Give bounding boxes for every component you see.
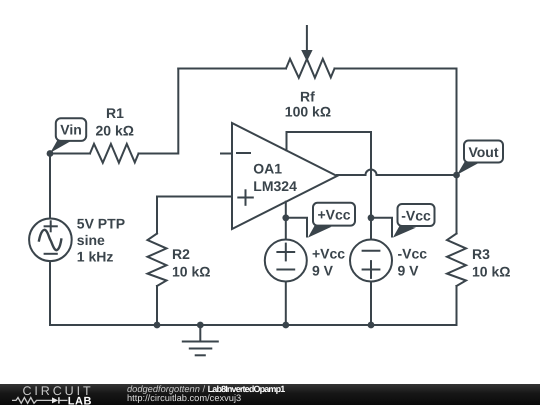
svg-text:LAB: LAB (68, 395, 92, 405)
footer bar (0, 384, 540, 405)
svg-text:LM324: LM324 (253, 178, 297, 194)
svg-text:9 V: 9 V (398, 262, 420, 278)
op-amp plus symbol (238, 197, 253, 199)
wire -Vcc source to bottom rail (370, 282, 372, 326)
svg-text:20 kΩ: 20 kΩ (96, 123, 134, 139)
wire Vin node down to source V1 (49, 154, 51, 219)
node dot Vout (453, 172, 460, 179)
svg-text:9 V: 9 V (312, 262, 334, 278)
node label Vin (50, 118, 86, 153)
node label Vout (457, 141, 503, 175)
wire top left to Rf (178, 68, 286, 70)
wire V1 to bottom rail (49, 261, 51, 325)
resistor R1 (90, 144, 139, 163)
svg-text:100 kΩ: 100 kΩ (285, 104, 331, 120)
voltage source -Vcc (350, 240, 392, 282)
wire Vout node down to R3 (456, 175, 458, 234)
ground (199, 325, 201, 341)
svg-text:R2: R2 (172, 246, 190, 262)
wire +Vcc tag stub (286, 218, 307, 237)
svg-text:http://circuitlab.com/cexvuj3: http://circuitlab.com/cexvuj3 (127, 393, 241, 403)
svg-text:5V PTP: 5V PTP (77, 216, 125, 232)
node dot +Vcc bottom (282, 322, 289, 329)
svg-text:1 kHz: 1 kHz (77, 248, 114, 264)
node dot ground (197, 322, 204, 329)
potentiometer Rf (286, 59, 335, 78)
logo resistor zigzag (12, 398, 52, 404)
wire op-amp V+ pin over to -Vcc branch (287, 132, 372, 240)
wire non-inverting input (157, 197, 232, 234)
svg-text:10 kΩ: 10 kΩ (472, 264, 510, 280)
node dot -Vcc tap (368, 214, 375, 221)
node dot +Vcc tap (282, 214, 289, 221)
wire +Vcc source to bottom rail (285, 282, 287, 326)
node dot -Vcc bottom (368, 322, 375, 329)
wire Rf to top right corner (335, 69, 457, 176)
logo diode (52, 397, 58, 403)
svg-text:R3: R3 (472, 246, 490, 262)
wire op-amp V- pin down (285, 202, 287, 240)
svg-text:OA1: OA1 (253, 161, 282, 177)
op-amp OA1 (232, 123, 337, 229)
svg-text:+Vcc: +Vcc (317, 207, 350, 223)
svg-text:R1: R1 (106, 105, 124, 121)
svg-text:Vout: Vout (468, 144, 498, 160)
resistor R2 (148, 234, 167, 287)
svg-text:Vin: Vin (60, 122, 82, 138)
wire -Vcc tag stub (371, 218, 392, 237)
svg-text:sine: sine (77, 232, 105, 248)
node label +Vcc (308, 203, 355, 238)
svg-text:-Vcc: -Vcc (401, 207, 431, 223)
wire Vin node to R1 (50, 153, 90, 155)
op-amp inverting input stub (221, 153, 232, 155)
node label -Vcc (393, 204, 435, 238)
voltage source +Vcc (265, 240, 307, 282)
node dot Vin (47, 150, 54, 157)
voltage source V1 sine (29, 219, 72, 262)
wire bottom rail (50, 324, 457, 326)
wire op-amp output with hop (337, 170, 457, 176)
Rf wiper arrow (306, 26, 308, 52)
op-amp minus symbol (237, 152, 250, 154)
svg-text:-Vcc: -Vcc (398, 246, 428, 262)
svg-text:+Vcc: +Vcc (312, 246, 345, 262)
svg-text:Rf: Rf (300, 88, 315, 104)
node dot R2 bottom (154, 322, 161, 329)
resistor R3 (447, 234, 466, 287)
wire R3 to bottom (456, 286, 458, 325)
svg-text:10 kΩ: 10 kΩ (172, 264, 210, 280)
wire R1 to corner (139, 69, 179, 154)
wire R2 to bottom rail (156, 286, 158, 325)
